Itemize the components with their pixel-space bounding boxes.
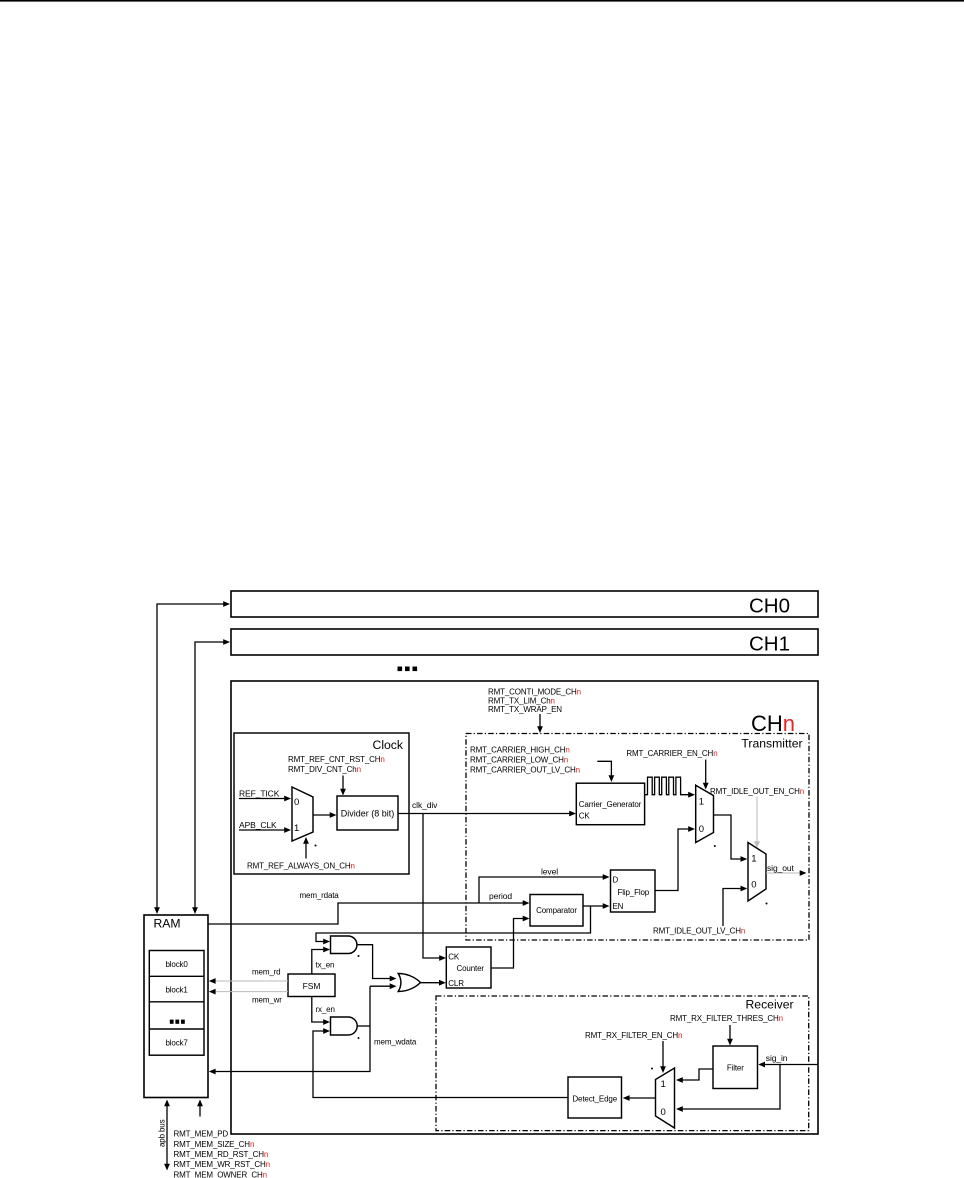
svg-text:CH1: CH1 bbox=[749, 633, 790, 656]
svg-text:RMT_REF_ALWAYS_ON_CHn: RMT_REF_ALWAYS_ON_CHn bbox=[247, 862, 355, 871]
svg-text:1: 1 bbox=[294, 823, 299, 834]
svg-text:Carrier_Generator: Carrier_Generator bbox=[579, 800, 642, 809]
svg-text:CLR: CLR bbox=[448, 979, 464, 988]
svg-text:rx_en: rx_en bbox=[316, 1005, 335, 1014]
svg-text:mem_rd: mem_rd bbox=[252, 968, 280, 977]
svg-text:level: level bbox=[541, 867, 558, 877]
svg-text:sig_in: sig_in bbox=[766, 1053, 788, 1063]
svg-text:RMT_MEM_OWNER_CHn: RMT_MEM_OWNER_CHn bbox=[174, 1170, 267, 1178]
svg-text:RMT_CONTI_MODE_CHn: RMT_CONTI_MODE_CHn bbox=[488, 688, 581, 697]
svg-text:Counter: Counter bbox=[457, 964, 485, 973]
svg-text:1: 1 bbox=[661, 1079, 666, 1090]
svg-text:RMT_IDLE_OUT_EN_CHn: RMT_IDLE_OUT_EN_CHn bbox=[710, 787, 804, 796]
svg-text:RMT_CARRIER_LOW_CHn: RMT_CARRIER_LOW_CHn bbox=[470, 756, 568, 765]
svg-text:EN: EN bbox=[613, 902, 624, 911]
svg-text:sig_out: sig_out bbox=[767, 863, 794, 873]
svg-text:0: 0 bbox=[661, 1107, 666, 1118]
svg-text:tx_en: tx_en bbox=[316, 961, 335, 970]
svg-text:RMT_MEM_PD: RMT_MEM_PD bbox=[174, 1130, 229, 1139]
svg-text:0: 0 bbox=[294, 797, 299, 808]
svg-text:D: D bbox=[613, 876, 619, 885]
svg-text:Comparator: Comparator bbox=[536, 906, 577, 915]
svg-text:Transmitter: Transmitter bbox=[741, 737, 802, 751]
svg-text:RMT_DIV_CNT_Chn: RMT_DIV_CNT_Chn bbox=[288, 765, 361, 774]
svg-text:CK: CK bbox=[579, 812, 591, 821]
svg-text:clk_div: clk_div bbox=[412, 800, 438, 810]
svg-text:RMT_CARRIER_OUT_LV_CHn: RMT_CARRIER_OUT_LV_CHn bbox=[470, 766, 580, 775]
svg-text:RMT_REF_CNT_RST_CHn: RMT_REF_CNT_RST_CHn bbox=[288, 755, 385, 764]
svg-text:0: 0 bbox=[751, 880, 756, 891]
svg-text:CH0: CH0 bbox=[749, 595, 790, 618]
svg-text:RAM: RAM bbox=[154, 917, 181, 931]
svg-text:1: 1 bbox=[699, 797, 704, 808]
svg-text:mem_rdata: mem_rdata bbox=[300, 891, 340, 900]
svg-text:RMT_CARRIER_HIGH_CHn: RMT_CARRIER_HIGH_CHn bbox=[470, 746, 570, 755]
svg-text:Divider (8 bit): Divider (8 bit) bbox=[341, 809, 395, 819]
svg-text:RMT_MEM_SIZE_CHn: RMT_MEM_SIZE_CHn bbox=[174, 1140, 255, 1149]
svg-text:FSM: FSM bbox=[303, 981, 321, 991]
svg-text:Detect_Edge: Detect_Edge bbox=[572, 1095, 617, 1104]
svg-text:block0: block0 bbox=[165, 960, 188, 969]
svg-text:RMT_CARRIER_EN_CHn: RMT_CARRIER_EN_CHn bbox=[626, 749, 717, 758]
svg-text:mem_wdata: mem_wdata bbox=[374, 1038, 417, 1047]
svg-text:period: period bbox=[489, 891, 512, 901]
svg-text:apb bus: apb bus bbox=[158, 1119, 167, 1147]
svg-text:RMT_TX_WRAP_EN: RMT_TX_WRAP_EN bbox=[488, 705, 562, 714]
svg-text:1: 1 bbox=[751, 854, 756, 865]
svg-text:RMT_IDLE_OUT_LV_CHn: RMT_IDLE_OUT_LV_CHn bbox=[653, 927, 745, 936]
svg-text:block1: block1 bbox=[165, 986, 188, 995]
svg-text:Receiver: Receiver bbox=[746, 998, 794, 1012]
svg-text:RMT_RX_FILTER_EN_CHn: RMT_RX_FILTER_EN_CHn bbox=[585, 1031, 682, 1040]
svg-text:Flip_Flop: Flip_Flop bbox=[618, 888, 650, 897]
svg-text:Filter: Filter bbox=[727, 1064, 744, 1073]
svg-text:RMT_MEM_RD_RST_CHn: RMT_MEM_RD_RST_CHn bbox=[174, 1150, 269, 1159]
svg-text:0: 0 bbox=[699, 824, 704, 835]
svg-text:CHn: CHn bbox=[751, 711, 795, 736]
svg-text:REF_TICK: REF_TICK bbox=[239, 789, 280, 799]
svg-text:Clock: Clock bbox=[373, 738, 404, 752]
svg-text:RMT_RX_FILTER_THRES_CHn: RMT_RX_FILTER_THRES_CHn bbox=[670, 1014, 783, 1023]
svg-text:APB_CLK: APB_CLK bbox=[239, 820, 277, 830]
svg-text:RMT_MEM_WR_RST_CHn: RMT_MEM_WR_RST_CHn bbox=[174, 1160, 270, 1169]
svg-text:RMT_TX_LIM_Chn: RMT_TX_LIM_Chn bbox=[488, 696, 555, 705]
svg-text:CK: CK bbox=[448, 953, 460, 962]
svg-text:block7: block7 bbox=[165, 1039, 188, 1048]
svg-text:mem_wr: mem_wr bbox=[252, 995, 282, 1004]
